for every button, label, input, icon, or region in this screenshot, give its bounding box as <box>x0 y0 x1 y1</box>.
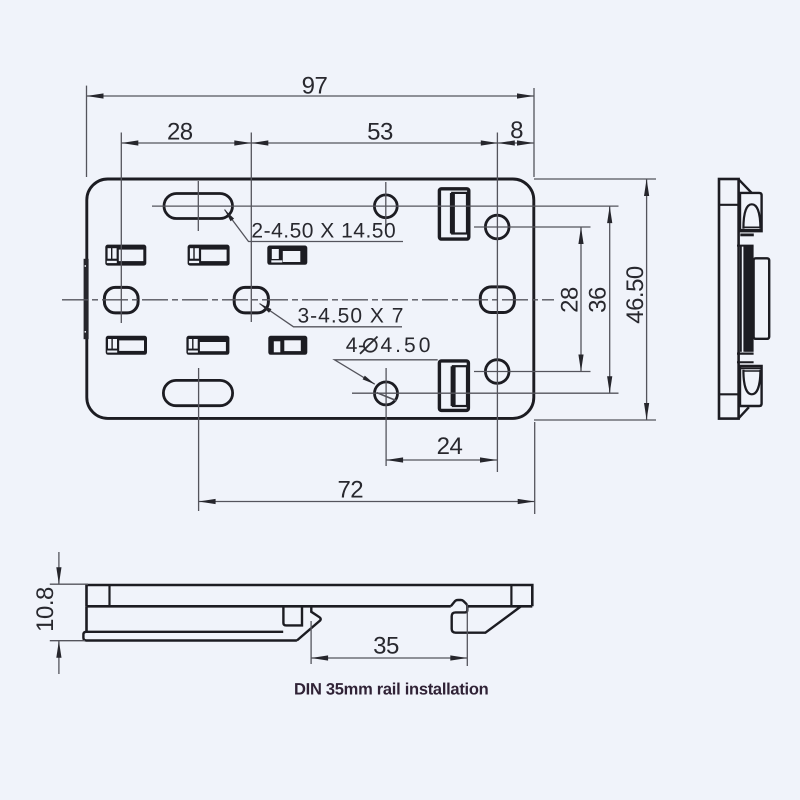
centerline top slot vertical <box>197 181 199 231</box>
pin slot row1 #3 <box>267 246 307 265</box>
round hole right-bottom 4.50 <box>485 360 509 384</box>
svg-text:4.50: 4.50 <box>381 334 434 357</box>
ext line plate top right / 46.50 <box>534 178 656 180</box>
din clip rect bottom <box>439 361 468 411</box>
round hole top 4.50 <box>374 195 397 218</box>
ext line right holes vertical <box>496 133 498 473</box>
round hole bottom 4.50 <box>375 382 398 405</box>
centerline right-top hole / 28 ext <box>474 226 591 228</box>
ext line plate bottom right / 46.50 <box>534 419 656 421</box>
svg-text:28: 28 <box>557 287 584 313</box>
dim 28 vertical right <box>580 227 582 372</box>
dim 46.50 vertical right <box>646 179 648 420</box>
slider tab <box>283 606 302 625</box>
centerline right-bottom hole / 28 ext <box>474 371 591 373</box>
centerline bottom slot vertical / 72 ext <box>198 368 200 511</box>
housing bottom <box>740 366 762 406</box>
pin slot row1 #1 <box>105 245 146 266</box>
centerline bottom hole / 36 ext <box>352 392 619 394</box>
round hole right-top 4.50 <box>485 215 509 239</box>
rail hook <box>451 600 521 633</box>
svg-text:36: 36 <box>585 287 612 313</box>
ext line center oval vertical <box>250 133 252 323</box>
centerline top slot / 36 ext <box>152 205 619 207</box>
svg-text:4-: 4- <box>346 334 366 357</box>
chamfer top <box>739 179 752 193</box>
pin slot row2 #2 <box>186 336 229 355</box>
channel <box>740 247 742 352</box>
svg-text:35: 35 <box>373 633 399 660</box>
pin slot row2 #3 <box>268 336 307 355</box>
dim 97 line <box>87 95 535 97</box>
body band <box>87 585 533 606</box>
svg-text:72: 72 <box>337 477 363 504</box>
oval hole center 3-4.50x7 <box>234 287 268 313</box>
dim 28-53-8 line <box>121 142 534 144</box>
svg-text:28: 28 <box>167 119 193 146</box>
leader 4-dia4.50 <box>335 360 438 384</box>
ext line left oval vertical <box>120 133 122 324</box>
body <box>719 179 739 419</box>
dim 36 vertical right <box>609 206 611 393</box>
dim 10.8 <box>50 583 88 585</box>
svg-text:3-4.50 X 7: 3-4.50 X 7 <box>298 304 405 327</box>
chamfer bottom <box>739 407 749 418</box>
svg-text:8: 8 <box>510 117 523 144</box>
dim 24 line <box>386 459 497 461</box>
leader 2-4.50 X 14.50 <box>225 210 404 242</box>
svg-text:DIN 35mm rail installation: DIN 35mm rail installation <box>294 680 489 698</box>
din clip rect top <box>439 189 468 239</box>
pin slot row2 #1 <box>106 336 147 355</box>
bottom slot 2-4.50x14.50 <box>163 380 232 405</box>
svg-text:53: 53 <box>367 119 393 146</box>
centerline main horizontal <box>62 299 554 301</box>
oval hole right 3-4.50x7 <box>480 287 514 313</box>
dim 72 line <box>199 501 535 503</box>
centerline top hole vertical <box>385 182 387 230</box>
svg-text:2-4.50 X 14.50: 2-4.50 X 14.50 <box>251 220 396 243</box>
dim 35 <box>310 621 312 664</box>
plate outline <box>87 179 534 418</box>
oval hole left 3-4.50x7 <box>104 287 138 313</box>
slider flange <box>83 632 297 641</box>
top slot 2-4.50x14.50 <box>164 194 233 219</box>
svg-text:24: 24 <box>437 433 463 460</box>
svg-text:10.8: 10.8 <box>32 587 59 632</box>
button <box>754 258 770 339</box>
slider lip <box>297 606 321 640</box>
ext line plate left top / 97 <box>86 86 88 177</box>
left edge tab <box>84 259 89 339</box>
ext line plate right bottom / 72+24 <box>534 422 536 514</box>
pin slot row1 #2 <box>188 245 230 266</box>
svg-text:46.50: 46.50 <box>622 266 649 324</box>
leader 3-4.50 X 7 <box>260 304 403 327</box>
svg-text:97: 97 <box>302 73 328 100</box>
ext line plate right top / 97 <box>533 88 535 177</box>
housing top <box>740 193 762 231</box>
centerline bottom hole vertical / 24 ext <box>385 368 387 466</box>
body left lower edge <box>85 606 88 632</box>
